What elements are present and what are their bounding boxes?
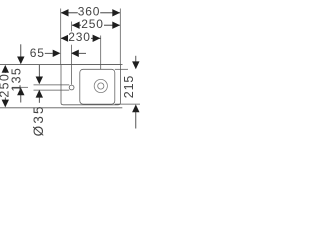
svg-text:135: 135	[10, 67, 24, 92]
svg-text:230: 230	[68, 30, 90, 44]
bowl front extension right	[115, 103, 140, 105]
bowl outline	[80, 69, 115, 104]
dim 250 left vertical line	[4, 72, 6, 101]
dim 65 left shaft and arrow	[45, 52, 53, 54]
dim 360 line	[61, 12, 120, 14]
dim 230 right arrow	[93, 35, 101, 42]
dim 250 right arrow	[112, 22, 120, 29]
dim 250 left top arrow	[2, 65, 9, 73]
dim 65 right arrow and tail	[71, 50, 79, 57]
dim 215 bottom arrow and tail	[132, 104, 139, 112]
extension line 230 right	[100, 36, 102, 70]
dim 250 left arrow	[72, 22, 80, 29]
dim 360 right arrow	[112, 9, 120, 16]
tap hole centre extension for 135	[12, 86, 28, 88]
dim 360 text	[78, 6, 100, 16]
svg-text:250: 250	[81, 17, 103, 31]
dim 250 left bottom arrow	[2, 100, 9, 108]
extension line left x60.7	[60, 9, 62, 65]
wire basin back edge + left extension	[0, 64, 123, 66]
svg-text:65: 65	[30, 46, 45, 60]
dim 135 bottom arrow and tail	[17, 88, 24, 96]
tap hole bottom tangent extension	[34, 89, 70, 91]
svg-text:215: 215	[122, 75, 136, 99]
tap hole circle	[69, 85, 74, 90]
tap hole top tangent extension	[34, 84, 70, 86]
basin outline	[61, 65, 120, 105]
dim diameter 35 bottom arrow with tail	[36, 90, 43, 98]
dim 230 left arrow	[61, 35, 69, 42]
dim diameter 35 top arrow with tail	[38, 65, 40, 78]
dim 215 top arrow and tail	[135, 56, 137, 62]
wire basin front edge + left extension	[0, 107, 122, 109]
dim 230 text	[68, 31, 91, 42]
dim 135 top arrow and tail	[20, 44, 22, 57]
extension line tap centre vertical	[71, 22, 73, 85]
dim 230 line	[61, 37, 101, 39]
dim 360 left arrow	[61, 9, 69, 16]
dim 250 left text	[0, 73, 10, 98]
drain inner circle	[98, 83, 104, 89]
bowl back extension right	[115, 68, 128, 70]
dim 250 text	[81, 18, 104, 29]
extension line right x120.3	[119, 9, 121, 65]
dim 250 line	[72, 24, 120, 26]
svg-text:Ø35: Ø35	[31, 104, 46, 136]
drain outer circle	[94, 79, 107, 92]
